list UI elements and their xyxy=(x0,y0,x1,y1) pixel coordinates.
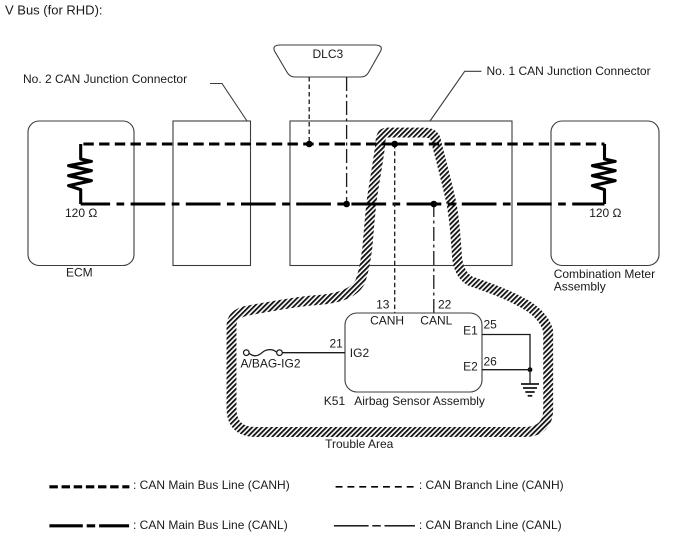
svg-text:DLC3: DLC3 xyxy=(313,47,344,61)
svg-text:120 Ω: 120 Ω xyxy=(65,206,97,220)
svg-text:: CAN Main Bus Line (CANL): : CAN Main Bus Line (CANL) xyxy=(133,518,288,532)
svg-text:No. 2 CAN Junction Connector: No. 2 CAN Junction Connector xyxy=(23,72,187,86)
svg-text:120 Ω: 120 Ω xyxy=(589,206,621,220)
svg-text:K51: K51 xyxy=(324,394,346,408)
svg-text:26: 26 xyxy=(484,354,498,368)
svg-text:ECM: ECM xyxy=(66,266,93,280)
svg-text:A/BAG-IG2: A/BAG-IG2 xyxy=(241,357,301,371)
svg-text:E1: E1 xyxy=(463,324,478,338)
svg-text:25: 25 xyxy=(484,318,498,332)
svg-text:No. 1 CAN Junction Connector: No. 1 CAN Junction Connector xyxy=(487,64,651,78)
svg-text:CANH: CANH xyxy=(370,314,404,328)
svg-text:: CAN Branch Line (CANH): : CAN Branch Line (CANH) xyxy=(419,478,564,492)
svg-text:21: 21 xyxy=(330,337,344,351)
svg-text:IG2: IG2 xyxy=(350,346,370,360)
svg-text:E2: E2 xyxy=(463,359,478,373)
svg-text:Airbag Sensor Assembly: Airbag Sensor Assembly xyxy=(354,394,485,408)
svg-text:CANL: CANL xyxy=(420,314,452,328)
svg-text:13: 13 xyxy=(376,298,390,312)
svg-text:Trouble Area: Trouble Area xyxy=(325,437,394,451)
svg-text:22: 22 xyxy=(438,298,452,312)
svg-text:V Bus (for RHD):: V Bus (for RHD): xyxy=(5,3,103,18)
svg-text:: CAN Branch Line (CANL): : CAN Branch Line (CANL) xyxy=(419,518,562,532)
svg-text:Assembly: Assembly xyxy=(554,279,606,293)
svg-text:: CAN Main Bus Line (CANH): : CAN Main Bus Line (CANH) xyxy=(133,478,290,492)
